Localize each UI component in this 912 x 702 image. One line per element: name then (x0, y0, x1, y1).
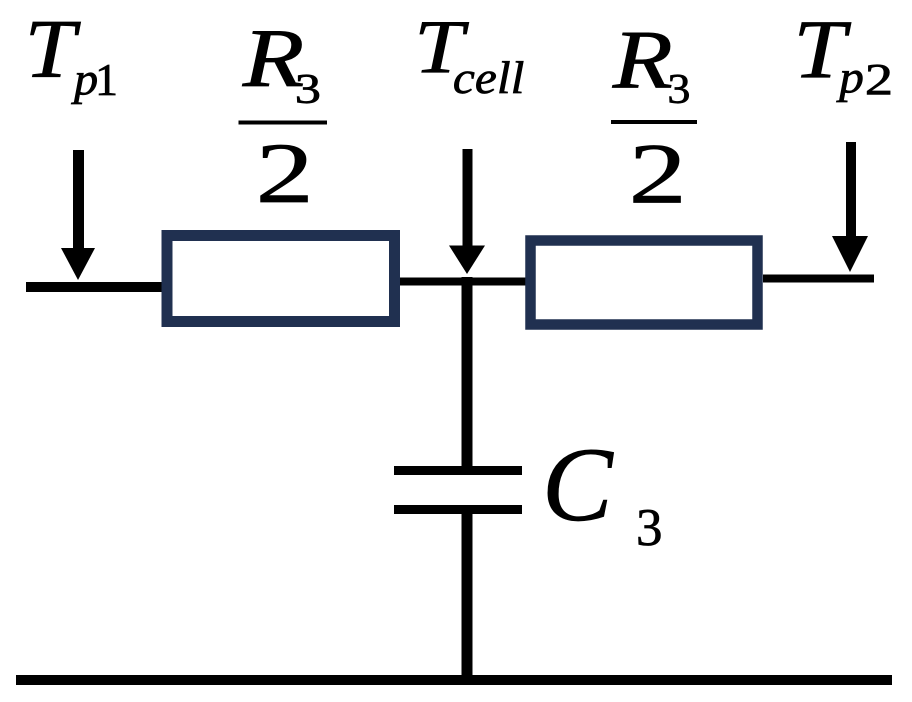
svg-text:R: R (612, 13, 673, 106)
svg-text:C: C (542, 426, 614, 543)
svg-text:3: 3 (667, 66, 690, 113)
svg-text:2: 2 (256, 126, 314, 221)
svg-text:3: 3 (636, 499, 663, 557)
svg-text:2: 2 (629, 127, 687, 222)
svg-text:p: p (836, 53, 864, 103)
svg-text:cell: cell (453, 54, 524, 103)
svg-text:T: T (25, 2, 81, 95)
svg-text:2: 2 (865, 55, 893, 104)
svg-text:1: 1 (95, 54, 118, 105)
svg-text:3: 3 (295, 67, 321, 113)
